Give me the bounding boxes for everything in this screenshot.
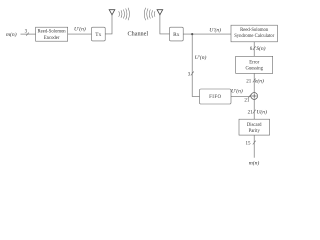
- svg-text:FIFO: FIFO: [209, 95, 221, 100]
- block Error Guessing: [236, 56, 273, 73]
- svg-text:S(n): S(n): [256, 45, 265, 52]
- svg-text:e(n): e(n): [255, 77, 264, 84]
- svg-text:Rx: Rx: [173, 32, 180, 38]
- wire Tx to antenna: [105, 15, 112, 34]
- wire discard parity to output: [253, 135, 255, 158]
- svg-text:U(n): U(n): [256, 109, 267, 116]
- svg-text:Channel: Channel: [127, 30, 148, 37]
- block Rx: [170, 27, 184, 41]
- svg-text:Guessing: Guessing: [245, 67, 263, 72]
- block Tx: [92, 27, 106, 41]
- bus slash 3 (input): [26, 33, 29, 36]
- wire adder to discard parity: [253, 99, 255, 119]
- svg-text:15: 15: [246, 142, 252, 147]
- svg-text:Tx: Tx: [95, 32, 101, 38]
- bus slash 21 (e): [253, 79, 256, 83]
- block Reed-Solomon Encoder: [36, 27, 68, 41]
- svg-text:U′(n): U′(n): [231, 88, 243, 95]
- bus slash 6: [253, 46, 256, 50]
- svg-text:Encoder: Encoder: [44, 36, 60, 41]
- svg-text:Parity: Parity: [249, 129, 261, 134]
- bus slash 15: [253, 141, 256, 145]
- svg-text:21: 21: [246, 79, 252, 84]
- svg-text:21: 21: [244, 98, 250, 103]
- waves from Tx antenna: [119, 8, 130, 21]
- wire syndrome calc to error guessing: [253, 42, 255, 57]
- bus slash 21 (U): [253, 110, 256, 114]
- svg-text:m(n): m(n): [249, 160, 260, 167]
- junction dot: [191, 33, 193, 35]
- block FIFO: [200, 89, 232, 104]
- svg-text:3: 3: [188, 72, 191, 77]
- svg-text:Syndrome Calculator: Syndrome Calculator: [234, 34, 274, 39]
- wire FIFO to adder: [231, 95, 251, 97]
- svg-text:Discard: Discard: [247, 123, 262, 128]
- svg-text:Reed-Solomon: Reed-Solomon: [38, 30, 67, 35]
- block Reed-Solomon Syndrome Calculator: [231, 25, 277, 42]
- wire error guessing to adder: [253, 73, 255, 92]
- svg-text:Error: Error: [249, 60, 259, 65]
- svg-text:U′(n): U′(n): [195, 54, 207, 61]
- svg-text:21: 21: [248, 111, 254, 116]
- adder circle: [251, 93, 258, 100]
- bus slash 21 (FIFO out): [248, 95, 251, 99]
- bus slash 3 (vertical): [191, 72, 194, 76]
- antenna Rx: [157, 10, 163, 15]
- waves into Rx antenna: [144, 8, 155, 21]
- wire m(n) to encoder: [21, 33, 36, 35]
- svg-text:6: 6: [250, 47, 253, 52]
- svg-text:U′(n): U′(n): [74, 26, 86, 33]
- wire antenna to Rx: [160, 15, 170, 34]
- svg-text:m(n): m(n): [6, 31, 17, 38]
- svg-text:U′(n): U′(n): [209, 27, 221, 34]
- svg-text:3: 3: [25, 29, 28, 34]
- antenna Tx: [109, 10, 163, 15]
- wire Rx to syndrome calculator: [183, 33, 231, 35]
- wire encoder to Tx: [68, 33, 92, 35]
- svg-text:Reed-Solomon: Reed-Solomon: [240, 28, 269, 33]
- block Discard Parity: [239, 119, 270, 135]
- wire junction down to FIFO: [192, 34, 199, 96]
